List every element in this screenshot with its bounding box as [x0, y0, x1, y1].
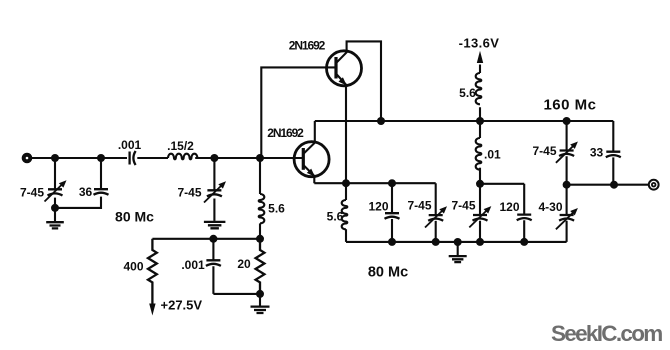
- svg-text:160 Mc: 160 Mc: [543, 97, 596, 114]
- wire L to Q2 base: [195, 157, 303, 159]
- node coll-480: [476, 117, 484, 125]
- svg-text:7-45: 7-45: [407, 199, 431, 213]
- node 55-207: [51, 204, 59, 212]
- wire coil to bias node: [259, 223, 261, 238]
- capacitor 7-45 variable (output top): [566, 121, 568, 185]
- wire 260 down to coil: [259, 158, 261, 194]
- node main-260: [256, 154, 264, 162]
- node bot-457: [454, 238, 462, 246]
- node out-614: [610, 181, 618, 189]
- inductor 5.6 (collector choke): [476, 73, 482, 104]
- input terminal J1: [24, 155, 31, 162]
- capacitor 120 (first): [391, 183, 393, 242]
- svg-text:2N1692: 2N1692: [289, 39, 326, 53]
- inductor .15/2: [168, 154, 197, 160]
- wire output line: [567, 184, 649, 186]
- arrow of variable cap: [556, 145, 574, 163]
- capacitor 33: [612, 121, 614, 185]
- wire bias line: [152, 238, 260, 240]
- capacitor 7-45 variable (tank b): [479, 184, 481, 242]
- wire 36 top: [100, 158, 102, 189]
- node bot-435: [432, 238, 440, 246]
- transistor Q1 2N1692: [327, 51, 362, 86]
- node bot-392: [388, 238, 396, 246]
- wire tank bottom line: [346, 241, 567, 243]
- emitter arrow Q1: [339, 77, 347, 85]
- node coll-566: [563, 117, 571, 125]
- svg-text:80 Mc: 80 Mc: [368, 265, 408, 281]
- capacitor 7-45 variable (tank a): [435, 183, 437, 242]
- ground (bias): [251, 307, 270, 313]
- svg-text:.15/2: .15/2: [167, 139, 194, 153]
- svg-text:80 Mc: 80 Mc: [115, 209, 154, 225]
- inductor .01: [479, 121, 481, 138]
- resistor 20: [256, 239, 265, 294]
- node coll-381: [377, 117, 385, 125]
- inductor 5.6 (emitter): [345, 183, 347, 200]
- capacitor 36: [94, 189, 109, 195]
- arrow of variable cap: [425, 210, 443, 228]
- node bot-480: [476, 238, 484, 246]
- capacitor 120 (second): [523, 184, 525, 242]
- wire 20 to ground: [259, 294, 261, 306]
- node em-346: [342, 179, 350, 187]
- transistor Q2 2N1692: [294, 142, 329, 177]
- svg-text:SeekIC.com: SeekIC.com: [551, 321, 662, 346]
- wire bias bottom link: [213, 293, 260, 295]
- resistor 400: [148, 239, 157, 304]
- svg-text:7-45: 7-45: [451, 199, 475, 213]
- svg-text:7-45: 7-45: [532, 144, 556, 158]
- wire between C and L: [137, 157, 168, 159]
- wire link 55-101 bottom: [55, 197, 101, 208]
- wire input line left: [32, 157, 127, 159]
- arrow +27.5V (down): [149, 304, 155, 316]
- wire 7-45 input branch: [54, 158, 56, 221]
- inductor 5.6 (base choke): [259, 194, 265, 223]
- wire segment 480-524: [480, 183, 524, 185]
- arrow of variable cap: [45, 184, 63, 202]
- capacitor .001 (series): [128, 152, 130, 165]
- svg-text:7-45: 7-45: [177, 186, 201, 200]
- capacitor .001 (bypass): [212, 239, 214, 294]
- svg-text:20: 20: [237, 257, 251, 271]
- node seg2-480: [476, 180, 484, 188]
- node 20-bottom: [256, 290, 264, 298]
- node em-392: [388, 179, 396, 187]
- svg-text:.001: .001: [118, 138, 142, 152]
- arrow of variable cap: [556, 212, 574, 230]
- svg-text:-13.6V: -13.6V: [459, 36, 500, 51]
- wire ground stub tank: [457, 242, 459, 256]
- capacitor 7-45 variable (2nd): [207, 190, 222, 196]
- svg-text:400: 400: [123, 260, 143, 274]
- arrow -13.6V (up): [477, 51, 483, 63]
- emitter arrow Q2: [307, 169, 315, 177]
- capacitor 4-30 variable: [566, 185, 568, 242]
- node main-55: [51, 154, 59, 162]
- wire collector line: [315, 120, 614, 122]
- node main-215: [210, 154, 218, 162]
- svg-text:120: 120: [368, 200, 388, 214]
- svg-text:5.6: 5.6: [327, 210, 344, 224]
- node bias-260: [256, 235, 264, 243]
- arrow of variable cap: [204, 185, 222, 203]
- output terminal J2: [649, 180, 659, 190]
- svg-text:5.6: 5.6: [459, 86, 476, 100]
- wire -13.6V feed: [479, 65, 481, 122]
- node main-101: [97, 154, 105, 162]
- wire Q1 base riser: [261, 67, 336, 158]
- svg-text:33: 33: [590, 146, 604, 160]
- svg-text:7-45: 7-45: [20, 186, 44, 200]
- node bias-213: [209, 235, 217, 243]
- ground (tank): [449, 256, 467, 262]
- svg-text:2N1692: 2N1692: [267, 126, 304, 140]
- svg-text:.01: .01: [484, 148, 501, 162]
- svg-text:36: 36: [79, 185, 93, 199]
- svg-text:120: 120: [499, 200, 519, 214]
- arrow of variable cap: [469, 210, 487, 228]
- ground (2nd branch): [204, 222, 226, 228]
- svg-text:5.6: 5.6: [268, 202, 285, 216]
- ground (input branch): [46, 222, 64, 228]
- svg-text:4-30: 4-30: [538, 200, 562, 214]
- capacitor 7-45 variable (input): [48, 189, 63, 195]
- svg-text:+27.5V: +27.5V: [161, 298, 203, 313]
- wire emitter tank line: [314, 182, 435, 184]
- node bot-524: [520, 238, 528, 246]
- wire 7-45 branch at 215: [213, 158, 215, 221]
- svg-text:.001: .001: [181, 258, 205, 272]
- node out-567: [563, 181, 571, 189]
